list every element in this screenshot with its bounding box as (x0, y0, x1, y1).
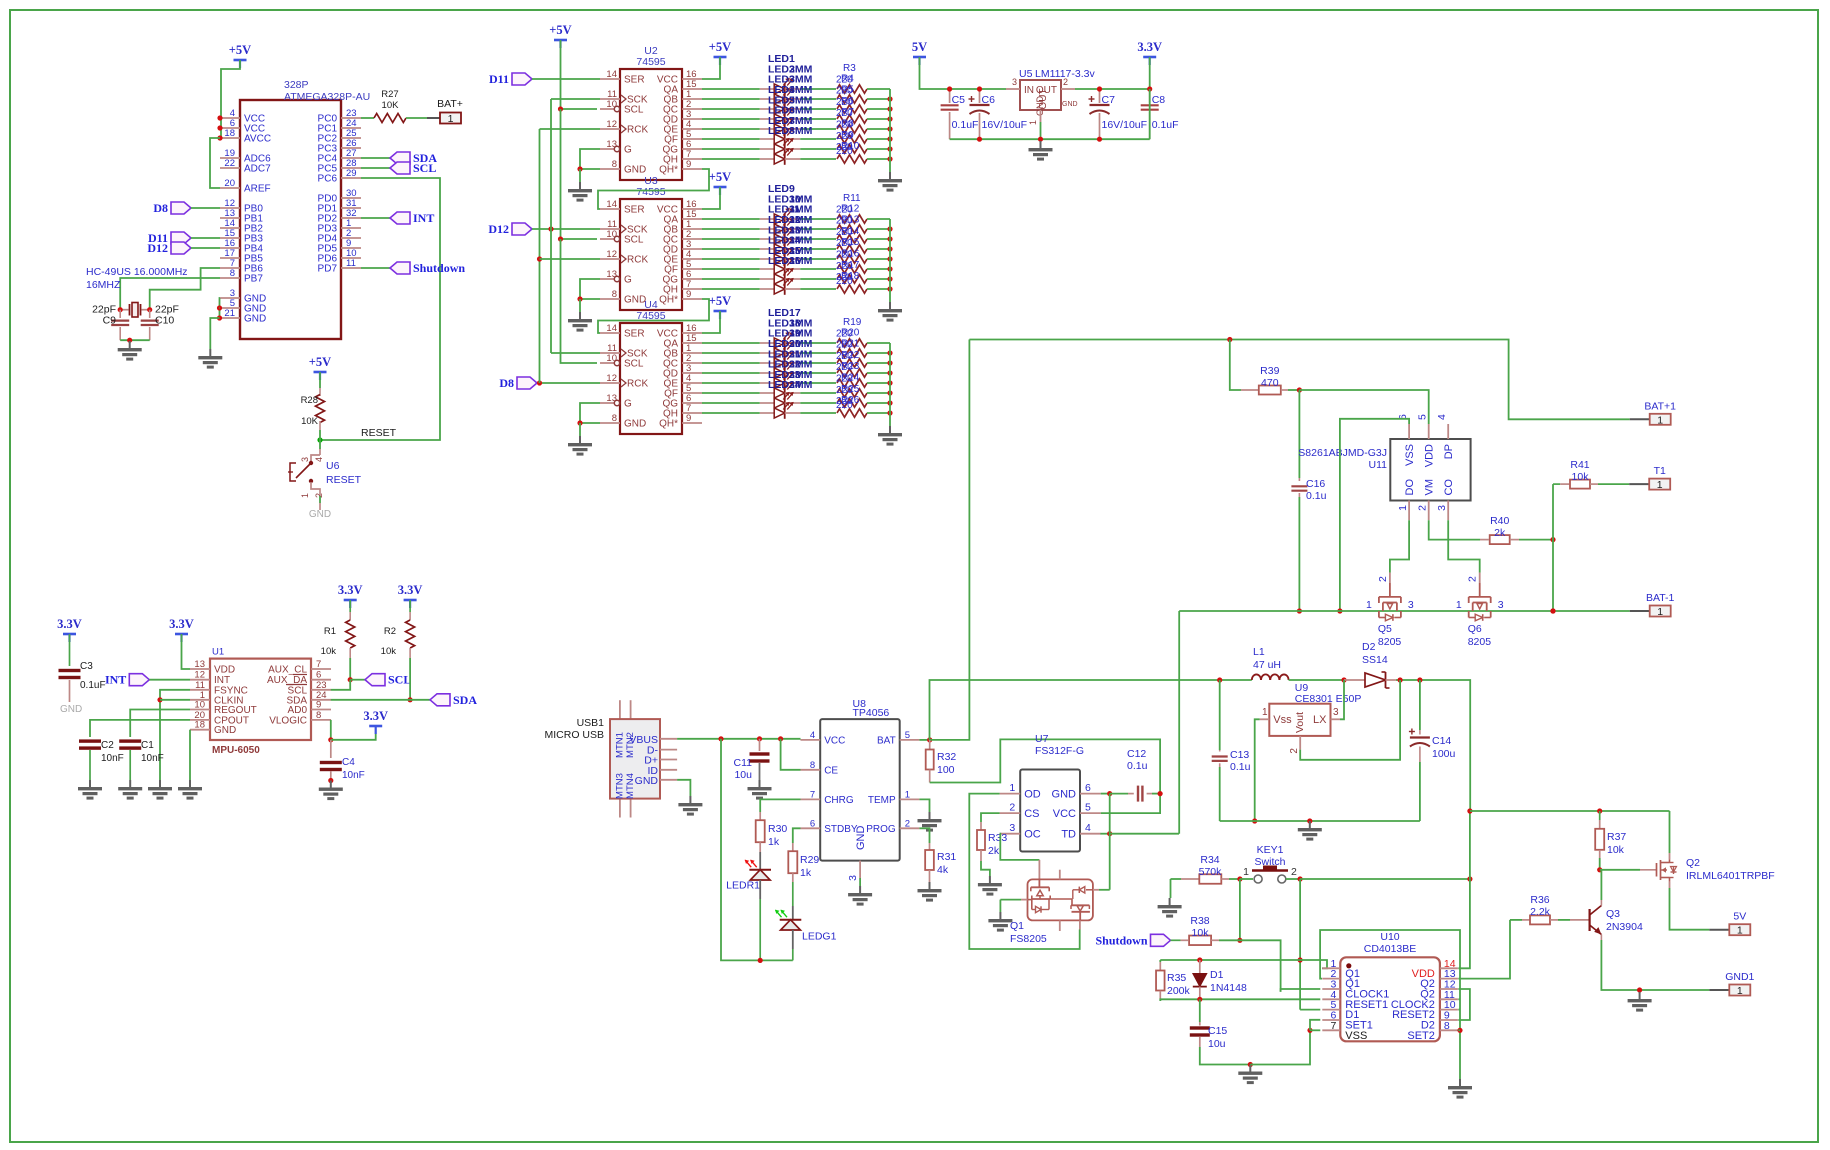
svg-text:U5: U5 (1019, 68, 1033, 80)
svg-text:10: 10 (606, 353, 617, 364)
svg-text:3MM: 3MM (789, 379, 813, 391)
svg-text:R40: R40 (1490, 515, 1509, 527)
svg-text:U1: U1 (212, 647, 224, 658)
svg-text:10k: 10k (1607, 844, 1625, 856)
svg-text:MICRO USB: MICRO USB (544, 729, 604, 741)
svg-text:OD: OD (1024, 789, 1041, 801)
svg-text:11: 11 (346, 258, 356, 269)
svg-text:D12: D12 (488, 222, 509, 236)
svg-text:D8: D8 (153, 201, 168, 215)
svg-text:74595: 74595 (636, 186, 665, 198)
svg-text:8: 8 (1444, 1020, 1450, 1032)
svg-text:R6: R6 (841, 96, 854, 107)
svg-text:PD7: PD7 (318, 264, 338, 275)
svg-text:U11: U11 (1369, 459, 1388, 471)
svg-text:Switch: Switch (1255, 856, 1286, 868)
svg-text:0.1uF: 0.1uF (1152, 119, 1179, 131)
svg-text:Shutdown: Shutdown (413, 261, 465, 275)
svg-text:SCL: SCL (413, 161, 436, 175)
svg-text:10: 10 (606, 99, 617, 110)
svg-text:CO: CO (1443, 479, 1455, 496)
svg-text:3.3V: 3.3V (169, 617, 194, 631)
svg-text:C16: C16 (1306, 478, 1325, 490)
svg-text:DP: DP (1443, 444, 1455, 459)
svg-text:G: G (624, 399, 632, 410)
svg-text:SCL: SCL (624, 235, 644, 246)
svg-text:1: 1 (1737, 925, 1743, 937)
svg-text:C14: C14 (1432, 735, 1451, 747)
svg-text:10: 10 (194, 700, 205, 711)
svg-text:IN: IN (1024, 85, 1034, 96)
svg-text:MTN1: MTN1 (615, 732, 626, 758)
svg-text:3MM: 3MM (789, 125, 813, 137)
svg-text:10u: 10u (734, 769, 752, 781)
svg-text:2k: 2k (1494, 527, 1506, 539)
svg-text:+5V: +5V (229, 43, 251, 57)
svg-text:3: 3 (1012, 77, 1017, 87)
svg-text:R30: R30 (768, 823, 787, 835)
svg-text:D2: D2 (1362, 641, 1376, 653)
svg-text:1: 1 (1243, 866, 1249, 878)
svg-text:TD: TD (1061, 829, 1076, 841)
svg-text:GND: GND (309, 509, 331, 520)
svg-text:+5V: +5V (709, 294, 731, 308)
svg-text:200k: 200k (1167, 985, 1191, 997)
svg-text:QH*: QH* (659, 165, 678, 176)
svg-text:10k: 10k (321, 646, 337, 657)
svg-text:G: G (624, 145, 632, 156)
svg-text:10nF: 10nF (141, 753, 164, 764)
svg-text:2: 2 (1009, 802, 1015, 814)
svg-text:R9: R9 (841, 130, 854, 141)
svg-text:0.1uF: 0.1uF (80, 680, 106, 691)
svg-text:3.3V: 3.3V (338, 583, 363, 597)
svg-text:3: 3 (1009, 822, 1015, 834)
svg-text:C9: C9 (103, 315, 117, 327)
svg-text:Q5: Q5 (1378, 623, 1392, 635)
svg-text:2k: 2k (988, 845, 1000, 857)
svg-text:R4: R4 (841, 73, 854, 84)
svg-text:LEDR1: LEDR1 (726, 880, 760, 892)
svg-text:10k: 10k (1572, 471, 1590, 483)
svg-text:1: 1 (905, 789, 910, 800)
svg-text:5: 5 (1417, 414, 1429, 420)
svg-text:LX: LX (1313, 714, 1327, 726)
svg-text:3: 3 (847, 875, 859, 881)
svg-text:R32: R32 (937, 751, 956, 763)
svg-text:C8: C8 (1152, 94, 1166, 106)
svg-text:D12: D12 (147, 241, 168, 255)
svg-text:L1: L1 (1253, 646, 1265, 658)
svg-text:47 uH: 47 uH (1253, 659, 1281, 671)
svg-text:5: 5 (1085, 802, 1091, 814)
svg-text:7: 7 (810, 789, 815, 800)
svg-text:VDD: VDD (214, 665, 235, 676)
svg-text:VLOGIC: VLOGIC (269, 715, 307, 726)
svg-text:100: 100 (937, 764, 955, 776)
svg-text:R29: R29 (800, 854, 819, 866)
svg-text:FS8205: FS8205 (1010, 933, 1047, 945)
svg-text:R37: R37 (1607, 831, 1626, 843)
svg-text:8: 8 (612, 289, 617, 300)
svg-text:1: 1 (448, 113, 454, 125)
svg-text:14: 14 (606, 69, 617, 80)
svg-text:USB1: USB1 (577, 717, 605, 729)
svg-text:9: 9 (686, 289, 691, 300)
svg-text:10nF: 10nF (342, 770, 365, 781)
svg-text:MPU-6050: MPU-6050 (212, 745, 260, 756)
svg-text:SER: SER (624, 329, 645, 340)
svg-text:4: 4 (1085, 822, 1091, 834)
svg-text:SDA: SDA (453, 693, 477, 707)
svg-text:8: 8 (612, 159, 617, 170)
svg-text:2: 2 (905, 818, 910, 829)
svg-text:74595: 74595 (636, 56, 665, 68)
svg-text:ADC7: ADC7 (244, 164, 271, 175)
svg-text:BAT+1: BAT+1 (1644, 400, 1676, 412)
svg-text:GND: GND (214, 725, 236, 736)
svg-text:0.1uF: 0.1uF (952, 119, 979, 131)
svg-text:Q1: Q1 (1010, 920, 1024, 932)
svg-text:SCL: SCL (624, 105, 644, 116)
svg-text:570k: 570k (1199, 866, 1223, 878)
svg-text:12: 12 (606, 373, 617, 384)
svg-text:7: 7 (1330, 1020, 1336, 1032)
svg-text:+5V: +5V (309, 355, 331, 369)
svg-text:220: 220 (836, 146, 853, 157)
svg-text:22: 22 (224, 158, 235, 169)
svg-text:3: 3 (1498, 599, 1504, 611)
svg-text:3MM: 3MM (789, 255, 813, 267)
svg-text:INT: INT (413, 211, 434, 225)
svg-text:R5: R5 (841, 85, 854, 96)
svg-text:100u: 100u (1432, 748, 1456, 760)
svg-text:2: 2 (1289, 748, 1300, 754)
svg-text:8205: 8205 (1468, 636, 1492, 648)
svg-text:1: 1 (1657, 414, 1663, 426)
svg-text:T1: T1 (1654, 465, 1666, 477)
svg-text:R7: R7 (841, 107, 854, 118)
svg-text:+5V: +5V (709, 40, 731, 54)
svg-text:10k: 10k (1192, 927, 1210, 939)
svg-text:ATMEGA328P-AU: ATMEGA328P-AU (284, 91, 370, 103)
svg-text:D8: D8 (499, 376, 514, 390)
svg-text:REGOUT: REGOUT (214, 705, 257, 716)
svg-text:R38: R38 (1190, 915, 1209, 927)
svg-text:VCC: VCC (824, 735, 845, 746)
svg-text:21: 21 (224, 308, 235, 319)
svg-text:0.1u: 0.1u (1127, 760, 1148, 772)
svg-text:220: 220 (836, 400, 853, 411)
svg-text:R27: R27 (381, 89, 398, 100)
svg-text:+5V: +5V (709, 170, 731, 184)
svg-text:C11: C11 (734, 757, 753, 769)
svg-text:C1: C1 (141, 740, 154, 751)
svg-text:SCL: SCL (624, 359, 644, 370)
svg-text:2: 2 (1467, 576, 1479, 582)
svg-text:SER: SER (624, 205, 645, 216)
svg-text:C10: C10 (155, 315, 174, 327)
svg-text:5: 5 (905, 730, 910, 741)
svg-text:R35: R35 (1167, 972, 1186, 984)
svg-text:PC6: PC6 (318, 174, 338, 185)
svg-text:CHRG: CHRG (824, 795, 854, 806)
svg-text:TP4056: TP4056 (853, 707, 890, 719)
svg-text:C13: C13 (1230, 749, 1249, 761)
svg-text:GND: GND (624, 419, 646, 430)
svg-text:PB7: PB7 (244, 274, 263, 285)
svg-text:1: 1 (1366, 599, 1372, 611)
svg-text:CS: CS (1024, 808, 1039, 820)
svg-text:VCC: VCC (1053, 808, 1076, 820)
svg-text:1k: 1k (768, 836, 780, 848)
svg-text:R25: R25 (841, 384, 860, 395)
svg-text:2: 2 (1377, 576, 1389, 582)
svg-text:AVCC: AVCC (244, 134, 271, 145)
svg-text:10k: 10k (381, 646, 397, 657)
svg-text:3: 3 (1408, 599, 1414, 611)
svg-text:D11: D11 (489, 72, 509, 86)
svg-text:R21: R21 (841, 339, 860, 350)
svg-text:BAT+: BAT+ (437, 98, 463, 110)
svg-text:8: 8 (612, 413, 617, 424)
svg-text:TEMP: TEMP (868, 795, 896, 806)
svg-text:R17: R17 (841, 260, 860, 271)
svg-text:Vout: Vout (1294, 712, 1306, 733)
svg-text:5V: 5V (1733, 911, 1746, 923)
svg-text:DO: DO (1404, 479, 1416, 496)
svg-text:C6: C6 (982, 94, 996, 106)
svg-text:1: 1 (1456, 599, 1462, 611)
svg-text:KEY1: KEY1 (1257, 844, 1284, 856)
svg-text:3: 3 (300, 457, 310, 462)
svg-text:GND: GND (1052, 789, 1077, 801)
svg-text:R13: R13 (841, 215, 860, 226)
svg-text:5V: 5V (912, 40, 927, 54)
svg-text:U6: U6 (326, 460, 340, 472)
svg-text:14: 14 (606, 199, 617, 210)
svg-text:VDD: VDD (1424, 444, 1436, 467)
svg-text:GND: GND (60, 704, 82, 715)
svg-text:QH*: QH* (659, 295, 678, 306)
svg-text:1: 1 (1737, 985, 1743, 997)
svg-text:BAT-1: BAT-1 (1646, 592, 1675, 604)
svg-text:VSS: VSS (1345, 1030, 1367, 1042)
svg-text:C5: C5 (952, 94, 966, 106)
svg-text:8: 8 (230, 268, 235, 279)
svg-text:3.3V: 3.3V (398, 583, 423, 597)
svg-text:R15: R15 (841, 237, 860, 248)
svg-text:8205: 8205 (1378, 636, 1402, 648)
svg-text:3.3V: 3.3V (363, 709, 388, 723)
svg-text:1: 1 (1397, 505, 1409, 511)
svg-text:AD0: AD0 (288, 705, 308, 716)
svg-text:CE8301 E50P: CE8301 E50P (1295, 693, 1362, 705)
svg-text:GND: GND (855, 826, 867, 851)
svg-text:U7: U7 (1035, 733, 1049, 745)
svg-text:2.2k: 2.2k (1530, 906, 1551, 918)
svg-text:CD4013BE: CD4013BE (1364, 943, 1417, 955)
svg-text:13: 13 (606, 269, 617, 280)
svg-text:16V/10uF: 16V/10uF (1102, 119, 1148, 131)
svg-text:2: 2 (1063, 77, 1068, 87)
svg-text:C7: C7 (1102, 94, 1116, 106)
svg-text:4: 4 (314, 457, 324, 462)
svg-text:1: 1 (1009, 782, 1015, 794)
svg-text:R20: R20 (841, 327, 860, 338)
svg-text:13: 13 (606, 139, 617, 150)
svg-text:RCK: RCK (627, 125, 648, 136)
svg-text:9: 9 (316, 700, 321, 711)
svg-text:GND: GND (624, 295, 646, 306)
svg-text:9: 9 (686, 159, 691, 170)
svg-text:18: 18 (194, 720, 205, 731)
svg-text:Q2: Q2 (1686, 857, 1700, 869)
svg-text:STDBY: STDBY (824, 824, 858, 835)
svg-text:RESET: RESET (326, 474, 362, 486)
svg-text:12: 12 (606, 249, 617, 260)
svg-text:R36: R36 (1530, 894, 1549, 906)
svg-text:1: 1 (1657, 606, 1663, 618)
svg-text:Shutdown: Shutdown (1095, 933, 1147, 947)
svg-text:R1: R1 (324, 626, 336, 637)
svg-text:R23: R23 (841, 361, 860, 372)
svg-text:R16: R16 (841, 249, 860, 260)
svg-text:29: 29 (346, 168, 357, 179)
svg-text:6: 6 (1085, 782, 1091, 794)
svg-text:4: 4 (1436, 414, 1448, 420)
svg-text:1: 1 (1262, 707, 1268, 718)
svg-text:Q6: Q6 (1468, 623, 1482, 635)
svg-text:R8: R8 (841, 119, 854, 130)
svg-text:4: 4 (810, 730, 815, 741)
svg-text:2: 2 (314, 493, 324, 498)
svg-text:13: 13 (606, 393, 617, 404)
svg-text:R39: R39 (1260, 365, 1279, 377)
svg-text:RCK: RCK (627, 255, 648, 266)
svg-text:Q3: Q3 (1606, 908, 1620, 920)
svg-text:MTN3: MTN3 (615, 773, 626, 799)
svg-text:R2: R2 (384, 626, 396, 637)
svg-text:1k: 1k (800, 867, 812, 879)
svg-text:GND: GND (244, 314, 266, 325)
svg-text:3.3V: 3.3V (1137, 40, 1162, 54)
svg-text:1: 1 (300, 493, 310, 498)
svg-text:12: 12 (606, 119, 617, 130)
svg-text:GND: GND (635, 775, 659, 787)
svg-text:GND: GND (624, 165, 646, 176)
svg-text:BAT: BAT (877, 735, 896, 746)
svg-text:LEDG1: LEDG1 (802, 931, 837, 943)
svg-text:R41: R41 (1570, 459, 1589, 471)
svg-text:9: 9 (686, 413, 691, 424)
svg-text:INT: INT (105, 673, 126, 687)
svg-text:1: 1 (1028, 120, 1038, 125)
svg-text:3: 3 (1333, 707, 1339, 718)
svg-text:R31: R31 (937, 851, 956, 863)
svg-text:10: 10 (606, 229, 617, 240)
svg-text:GND1: GND1 (1725, 971, 1754, 983)
svg-text:8: 8 (316, 710, 321, 721)
svg-text:10nF: 10nF (101, 753, 124, 764)
svg-text:RESET: RESET (361, 427, 397, 439)
svg-text:OC: OC (1024, 829, 1041, 841)
svg-text:R34: R34 (1200, 854, 1219, 866)
svg-text:13: 13 (194, 659, 205, 670)
svg-text:C2: C2 (101, 740, 114, 751)
svg-text:CE: CE (824, 765, 838, 776)
svg-text:8: 8 (810, 760, 815, 771)
svg-text:10u: 10u (1208, 1038, 1226, 1050)
svg-text:R28: R28 (301, 395, 318, 406)
svg-text:IRLML6401TRPBF: IRLML6401TRPBF (1686, 870, 1775, 882)
svg-text:1: 1 (1657, 479, 1663, 491)
svg-text:18: 18 (224, 128, 235, 139)
svg-text:0.1u: 0.1u (1306, 490, 1327, 502)
svg-text:VM: VM (1424, 479, 1436, 496)
svg-text:R24: R24 (841, 373, 860, 384)
svg-text:20: 20 (224, 178, 235, 189)
svg-text:G: G (624, 275, 632, 286)
svg-text:D1: D1 (1210, 969, 1224, 981)
svg-text:GND: GND (1062, 101, 1078, 108)
svg-text:16V/10uF: 16V/10uF (982, 119, 1028, 131)
svg-text:C4: C4 (342, 757, 355, 768)
svg-text:2: 2 (1291, 866, 1297, 878)
svg-text:R12: R12 (841, 203, 860, 214)
svg-text:14: 14 (606, 323, 617, 334)
svg-text:S8261ABJMD-G3J: S8261ABJMD-G3J (1298, 447, 1387, 459)
svg-text:7: 7 (316, 659, 321, 670)
svg-text:PROG: PROG (866, 824, 896, 835)
svg-text:AUX_CL: AUX_CL (268, 665, 307, 676)
svg-text:16MHZ: 16MHZ (86, 279, 121, 291)
svg-text:SET2: SET2 (1407, 1030, 1435, 1042)
svg-text:1N4148: 1N4148 (1210, 982, 1247, 994)
svg-text:470: 470 (1261, 377, 1279, 389)
svg-text:QH*: QH* (659, 419, 678, 430)
svg-text:C12: C12 (1127, 748, 1146, 760)
svg-text:2: 2 (1417, 505, 1429, 511)
svg-text:SS14: SS14 (1362, 654, 1388, 666)
svg-text:4k: 4k (937, 864, 949, 876)
svg-text:SER: SER (624, 75, 645, 86)
svg-text:328P: 328P (284, 79, 309, 91)
svg-text:6: 6 (810, 818, 815, 829)
svg-text:220: 220 (836, 276, 853, 287)
svg-text:10K: 10K (382, 100, 400, 111)
svg-text:2N3904: 2N3904 (1606, 921, 1643, 933)
svg-text:C3: C3 (80, 661, 93, 672)
svg-text:SCL: SCL (388, 673, 411, 687)
svg-text:AREF: AREF (244, 184, 271, 195)
svg-text:OUT: OUT (1038, 88, 1049, 109)
svg-text:3: 3 (1436, 505, 1448, 511)
svg-text:0.1u: 0.1u (1230, 761, 1251, 773)
svg-text:+5V: +5V (549, 23, 571, 37)
svg-text:R14: R14 (841, 226, 860, 237)
svg-text:10K: 10K (301, 416, 319, 427)
svg-text:C15: C15 (1208, 1025, 1227, 1037)
svg-text:R22: R22 (841, 350, 860, 361)
svg-text:Vss: Vss (1273, 714, 1292, 726)
svg-text:VSS: VSS (1404, 444, 1416, 466)
svg-text:3.3V: 3.3V (57, 617, 82, 631)
svg-text:HC-49US 16.000MHz: HC-49US 16.000MHz (86, 266, 188, 278)
svg-text:R33: R33 (988, 832, 1007, 844)
svg-text:RCK: RCK (627, 379, 648, 390)
svg-text:FS312F-G: FS312F-G (1035, 745, 1084, 757)
